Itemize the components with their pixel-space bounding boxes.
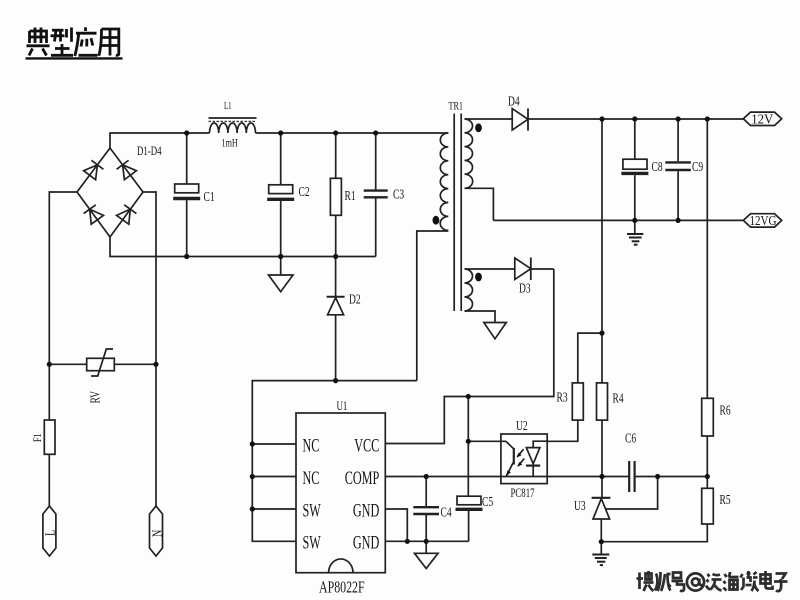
wire: D2 top leg <box>335 257 337 297</box>
inductor L1 core bar 2 <box>209 120 257 122</box>
svg-text:GND: GND <box>353 533 379 553</box>
wire: varistor left link <box>49 363 86 365</box>
node: C1 bottom <box>184 254 189 259</box>
svg-text:C8: C8 <box>652 158 663 174</box>
shunt regulator U3 <box>592 498 611 519</box>
ground below C2 <box>269 275 294 292</box>
transformer TR1 secondary1 phase dot <box>475 123 482 132</box>
wire: C4 ground stub <box>425 541 427 553</box>
wire: secondary2 bottom jog to ground <box>465 311 496 323</box>
svg-text:C6: C6 <box>625 430 636 446</box>
node: C8 at 12V rail <box>632 116 637 121</box>
node: R4 at 12V rail <box>599 116 604 121</box>
WATERMARK 搜狐号@泛海微电子 <box>637 571 788 591</box>
wire: 12VG return rail <box>493 219 743 221</box>
svg-text:NC: NC <box>303 469 320 489</box>
resistor R6 <box>702 398 714 436</box>
svg-text:U3: U3 <box>574 497 586 513</box>
inductor L1 winding <box>210 123 256 133</box>
earth ground below U3 <box>592 555 609 566</box>
varistor RV <box>87 349 115 376</box>
diode D3b (lower-left arm) <box>84 205 104 224</box>
svg-text:VCC: VCC <box>354 436 379 456</box>
output flag 12VG <box>743 214 781 227</box>
transformer TR1 core line 2 <box>460 114 462 312</box>
optocoupler U2 phototransistor <box>501 441 514 477</box>
node: GND3 join <box>405 539 410 544</box>
wire: AC top rail from bridge + output to L1 <box>110 133 210 148</box>
wire: secondary1 bottom jog <box>465 188 494 220</box>
svg-text:COMP: COMP <box>345 469 380 489</box>
node: C4 bottom <box>424 539 429 544</box>
node: C8 at 12VG rail <box>632 218 637 223</box>
svg-text:12VG: 12VG <box>750 213 777 228</box>
node: RV right <box>153 362 158 367</box>
svg-text:U1: U1 <box>337 399 348 413</box>
node: C9 at 12V rail <box>676 116 681 121</box>
wire: R6 line from 12V rail down <box>706 119 708 398</box>
wire: R4 bottom leg <box>601 420 603 476</box>
node: R1 top <box>333 130 338 135</box>
IC U1 box <box>296 413 385 573</box>
transformer TR1 primary phase dot <box>433 216 440 225</box>
title char 典 <box>27 28 50 56</box>
wire: C8 bottom leg <box>634 175 636 220</box>
node: C2 top <box>278 130 283 135</box>
svg-text:C9: C9 <box>692 158 703 174</box>
optocoupler U2 photon arrows <box>517 449 525 467</box>
wire: R3 top link to R4 line <box>578 333 602 383</box>
node: R4 bottom <box>599 474 604 479</box>
svg-text:L: L <box>42 530 58 536</box>
svg-text:GND: GND <box>353 501 379 521</box>
title underline <box>26 57 123 59</box>
resistor R1 <box>330 178 341 215</box>
svg-text:D2: D2 <box>349 291 361 307</box>
node: C3 top <box>373 130 378 135</box>
resistor R4 <box>597 383 608 420</box>
wire: U3 node to R5 bottom <box>601 524 707 542</box>
svg-text:SW: SW <box>303 501 321 521</box>
resistor R5 <box>702 488 714 524</box>
wire: IC GND pin3 jog down <box>385 509 407 541</box>
transformer TR1 secondary2 phase dot <box>475 273 482 282</box>
wire: COMP feedback rail left part <box>385 476 629 478</box>
watermark char 电 <box>761 571 773 589</box>
capacitor C3 <box>364 191 388 198</box>
diode D3 <box>515 258 531 281</box>
resistor R3 <box>572 383 583 420</box>
svg-text:F1: F1 <box>32 433 45 442</box>
wire: DC- bottom rail from bridge bottom vertex <box>110 237 376 257</box>
wire: secondary2 to D3 <box>465 268 515 270</box>
wire: IC left pin stub NC1 <box>252 443 296 445</box>
wire: horizontal run y=380.6 and left bus down IC left pins <box>252 381 416 542</box>
bridge rectifier D1-D4 diamond outline <box>77 148 143 237</box>
svg-text:C2: C2 <box>299 183 310 199</box>
capacitor C6 <box>629 461 634 492</box>
wire: 12V output rail <box>528 118 743 120</box>
capacitor C1 (polarized) <box>173 184 200 199</box>
node: U3 anode <box>599 539 604 544</box>
wire: C9 top leg <box>677 119 679 161</box>
svg-text:NC: NC <box>303 436 320 456</box>
svg-text:C5: C5 <box>482 493 493 509</box>
svg-text:R5: R5 <box>720 491 731 507</box>
terminal L flag <box>43 506 56 556</box>
node: bus SW3 <box>250 506 255 511</box>
watermark char 海 <box>724 572 739 591</box>
wire: C2 bottom leg + ground stub <box>280 201 282 275</box>
wire: D3 cathode to corner <box>531 268 554 270</box>
wire: D2 bottom leg <box>335 315 337 381</box>
wire: top rail L1 to transformer primary top <box>256 132 449 134</box>
watermark char 子 <box>774 574 788 592</box>
wire: C3 top leg <box>375 133 377 190</box>
svg-text:R3: R3 <box>557 389 568 405</box>
transformer TR1 core line 1 <box>453 114 455 312</box>
node: R1 bottom <box>333 254 338 259</box>
svg-text:R4: R4 <box>613 390 624 406</box>
transformer TR1 secondary2 winding <box>465 269 473 311</box>
wire: fuse to L terminal <box>48 454 50 506</box>
wire: C2 top leg <box>280 133 282 185</box>
svg-text:TR1: TR1 <box>449 100 464 113</box>
diode D2 <box>327 297 345 315</box>
output flag 12V <box>743 112 781 125</box>
wire: C8 earth stub <box>634 220 636 233</box>
node: bus NC2 <box>250 474 255 479</box>
svg-text:1mH: 1mH <box>222 137 239 150</box>
wire: R3 bottom to optocoupler LED anode <box>547 420 578 441</box>
wire: U3 top leg <box>601 477 603 498</box>
wire: C8 top leg <box>634 119 636 159</box>
wire: C6 reference link to U3 <box>606 477 658 510</box>
svg-text:C1: C1 <box>204 188 215 204</box>
svg-text:D3: D3 <box>519 280 531 296</box>
transformer TR1 secondary1 winding <box>465 119 473 188</box>
title char 应 <box>75 27 98 56</box>
wire: N line from bridge right vertex down to N terminal <box>143 192 156 507</box>
svg-text:RV: RV <box>87 391 103 404</box>
optocoupler U2 LED <box>526 441 547 476</box>
node: C1 top <box>184 130 189 135</box>
node: VCC riser junction <box>466 394 471 399</box>
wire: IC left pin stub SW3 <box>252 508 296 510</box>
svg-text:C3: C3 <box>393 186 404 202</box>
transformer TR1 primary winding <box>440 133 448 230</box>
diode D1 (upper-left arm) <box>84 160 104 179</box>
node: RV left <box>47 362 52 367</box>
watermark char 搜 <box>637 571 654 591</box>
IC U1 bottom notch <box>329 559 353 573</box>
node: C2 bottom <box>278 254 283 259</box>
wire: C3 bottom leg <box>375 198 377 256</box>
wire: VCC branch down to C5 top <box>467 397 469 497</box>
capacitor C4 <box>413 507 439 514</box>
watermark char 狐 <box>655 572 671 591</box>
ground below C4 <box>415 553 439 568</box>
watermark char 微 <box>741 571 759 591</box>
wire: R1 bottom leg <box>335 215 337 256</box>
wire: C4 bottom leg <box>425 514 427 541</box>
svg-text:U2: U2 <box>516 417 528 433</box>
node: bus NC1 <box>250 441 255 446</box>
wire: transformer primary bottom to vertical drop <box>417 231 449 381</box>
svg-text:R6: R6 <box>720 402 731 418</box>
title char 型 <box>51 28 74 56</box>
wire: C9 bottom leg <box>677 171 679 220</box>
capacitor C5 (polarized) <box>456 496 483 509</box>
wire: R4 line from 12V rail down <box>601 119 603 383</box>
node: R3 to R4 line <box>599 331 604 336</box>
watermark char 泛 <box>706 574 722 591</box>
capacitor C8 (polarized) <box>621 159 648 173</box>
wire: VCC pin to riser to D3 output <box>385 269 554 444</box>
wire: C4 top leg <box>425 477 427 507</box>
diode D4 <box>512 108 528 130</box>
node: C4 top <box>424 474 429 479</box>
wire: C1 top leg <box>186 133 188 184</box>
title char 用 <box>99 29 119 56</box>
diode D2b (upper-right arm) <box>117 160 137 179</box>
node: R6 at 12V rail <box>705 116 710 121</box>
wire: R6 bottom to R5 top <box>706 436 708 488</box>
svg-text:R1: R1 <box>345 187 356 203</box>
svg-text:PC817: PC817 <box>511 486 535 500</box>
svg-text:L1: L1 <box>224 100 232 112</box>
svg-text:SW: SW <box>303 533 321 553</box>
node: C9 at 12VG rail <box>676 218 681 223</box>
node: C5 top / opto collector <box>466 439 471 444</box>
diode D4b (lower-right arm) <box>117 205 137 224</box>
svg-text:12V: 12V <box>751 111 774 126</box>
svg-text:D4: D4 <box>508 93 520 109</box>
node: R5 top <box>705 474 710 479</box>
ground below secondary2 <box>484 323 507 339</box>
watermark char 号 <box>672 573 685 592</box>
wire: secondary1 top to D4 <box>465 118 513 120</box>
wire: C5 bottom leg <box>468 511 470 541</box>
wire: varistor right link <box>114 363 156 365</box>
capacitor C2 (polarized) <box>267 185 294 200</box>
wire: C1 bottom leg <box>186 200 188 256</box>
svg-text:D1-D4: D1-D4 <box>137 144 162 158</box>
wire: IC left pin stub NC2 <box>252 476 296 478</box>
svg-text:N: N <box>149 530 165 537</box>
wire: COMP feedback rail right part <box>635 476 708 478</box>
wire: L line from bridge left vertex down to fuse and L terminal <box>49 192 77 420</box>
watermark char @ <box>687 573 704 590</box>
terminal N flag <box>150 506 163 556</box>
fuse F1 <box>44 420 55 454</box>
inductor L1 core bar 1 <box>209 117 257 119</box>
capacitor C9 <box>665 162 691 170</box>
wire: branch to optocoupler collector <box>468 440 501 442</box>
wire: R1 top leg <box>335 133 337 178</box>
TITLE 典型应用 drawn strokes <box>26 27 123 58</box>
svg-text:C4: C4 <box>441 504 452 520</box>
optocoupler U2 box <box>501 434 547 484</box>
wire: IC GND pin4 rail to C5 bottom <box>385 540 468 542</box>
node: C6 right <box>655 474 660 479</box>
svg-text:AP8022F: AP8022F <box>319 579 365 598</box>
earth ground below C8 <box>627 234 643 245</box>
wire: U3 bottom leg and earth stub <box>600 519 602 554</box>
node: D2 anode <box>333 378 338 383</box>
